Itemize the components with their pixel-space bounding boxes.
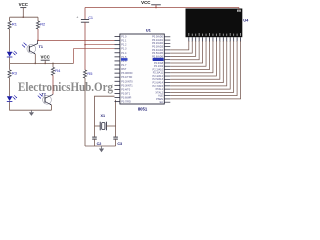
svg-text:P3.6/WR: P3.6/WR <box>121 96 131 100</box>
wire D1 cathode to rail <box>9 57 11 63</box>
wire T1 emitter to rail <box>34 54 36 63</box>
wire R2 to T1 collector node <box>37 29 39 40</box>
svg-text:P1.0: P1.0 <box>121 35 127 39</box>
phototransistor T1 <box>22 40 38 54</box>
svg-text:+: + <box>76 16 78 20</box>
svg-text:EA: EA <box>160 100 164 104</box>
resistor R5 <box>83 45 92 146</box>
U1 left pin stubs <box>115 37 120 102</box>
svg-text:P1.1: P1.1 <box>121 39 127 43</box>
junction <box>23 17 24 18</box>
resistor R4 <box>51 63 61 75</box>
svg-text:P3.3/INT1: P3.3/INT1 <box>121 83 133 87</box>
svg-text:P1.4: P1.4 <box>121 51 127 55</box>
svg-text:P3.4/T0: P3.4/T0 <box>121 87 131 91</box>
ground (stage B) <box>29 110 34 116</box>
svg-text:C2: C2 <box>97 142 102 146</box>
svg-text:P3.7/RD: P3.7/RD <box>121 100 131 104</box>
power symbol VCC (mid-left) <box>41 54 51 63</box>
capacitor C1 <box>76 8 93 45</box>
svg-text:R5: R5 <box>87 71 92 76</box>
svg-text:VCC: VCC <box>41 54 51 59</box>
LCD display U4 body <box>186 9 243 38</box>
svg-text:R4: R4 <box>55 68 61 73</box>
svg-text:X1: X1 <box>101 114 106 118</box>
wire RST to U1 <box>85 44 115 46</box>
junction <box>45 63 46 64</box>
U1 left pin labels <box>121 35 133 104</box>
highlighted net label on U1 left pin <box>121 58 128 61</box>
svg-text:P3.0/RXD: P3.0/RXD <box>121 71 132 75</box>
LCD pin stubs <box>189 37 241 42</box>
svg-text:R2: R2 <box>40 22 45 27</box>
wire XTAL1 from U1 <box>95 96 115 126</box>
svg-text:U4: U4 <box>243 18 249 23</box>
wire VCC top rail <box>85 7 239 9</box>
capacitor C2 <box>92 126 101 146</box>
svg-text:8051: 8051 <box>138 106 148 111</box>
svg-text:ElectronicsHub.Org: ElectronicsHub.Org <box>18 80 114 94</box>
svg-text:P3.2/INT0: P3.2/INT0 <box>121 79 133 83</box>
wire rail to EA pin <box>74 49 115 64</box>
wire bus U1 to LCD (16 wires) <box>170 41 240 99</box>
junction <box>52 63 53 64</box>
junction <box>155 7 156 8</box>
wire A - T1 collector to U1 pin P1.1 <box>38 39 115 41</box>
svg-text:RST: RST <box>121 67 127 71</box>
svg-text:T1: T1 <box>39 45 43 49</box>
svg-text:P1.7: P1.7 <box>121 63 127 67</box>
op-amp U1 body (8051 MCU) <box>120 34 164 104</box>
svg-text:P3.5/T1: P3.5/T1 <box>121 91 131 95</box>
wire R4 to T2 collector <box>52 75 54 94</box>
crystal X1 <box>95 122 116 131</box>
junction node T1 collector <box>37 40 38 41</box>
U1 right pin labels <box>152 35 163 104</box>
svg-text:P1.2: P1.2 <box>121 43 127 47</box>
wire VCC to LCD <box>238 8 240 10</box>
ground (crystal) <box>99 146 104 152</box>
svg-text:C1: C1 <box>88 16 93 20</box>
resistor R2 <box>36 17 45 29</box>
wire T2 emitter to bottom rail <box>50 105 52 110</box>
capacitor C3 <box>113 126 122 146</box>
resistor R1 <box>8 17 17 52</box>
wire crystal ground rail <box>85 145 116 147</box>
wire VCC rail mid-left <box>10 62 74 64</box>
U1 right pin stubs <box>164 37 170 102</box>
junction RST node <box>84 44 85 45</box>
wire XTAL2 from U1 <box>115 100 117 126</box>
svg-text:C3: C3 <box>117 142 122 146</box>
svg-text:P3.1/TXD: P3.1/TXD <box>121 75 132 79</box>
phototransistor T2 <box>38 94 53 105</box>
svg-text:P1.3: P1.3 <box>121 47 127 51</box>
wire D2 to bottom rail <box>10 102 52 111</box>
highlighted net label on U1 pin <box>153 58 164 61</box>
junction <box>35 63 36 64</box>
LCD pin name markings <box>188 33 241 36</box>
svg-text:R3: R3 <box>12 70 17 75</box>
svg-text:R1: R1 <box>12 22 17 27</box>
LED D2 <box>7 95 17 101</box>
LED D1 <box>7 51 17 57</box>
svg-text:U1: U1 <box>146 27 152 32</box>
svg-text:VCC: VCC <box>19 2 29 7</box>
power symbol VCC (top-mid) <box>141 0 161 7</box>
svg-text:VCC: VCC <box>141 0 151 5</box>
wire VCC rail top-left <box>10 16 38 18</box>
power symbol VCC (top-left) <box>19 2 29 17</box>
resistor R3 <box>8 63 17 96</box>
